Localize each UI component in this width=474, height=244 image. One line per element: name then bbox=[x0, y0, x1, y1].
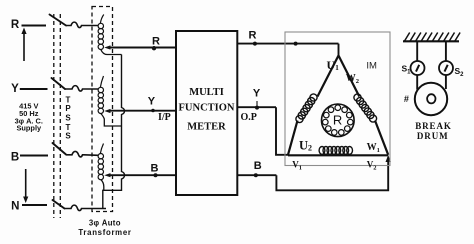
stator winding V (bottom side of delta) bbox=[288, 147, 388, 156]
TPSTS switch dashed enclosure bbox=[54, 14, 61, 218]
meter label bbox=[178, 87, 234, 133]
rope to spring balance S2 bbox=[445, 41, 447, 61]
svg-text:B: B bbox=[11, 152, 19, 164]
fuse B bbox=[66, 151, 98, 156]
svg-text:METER: METER bbox=[187, 122, 226, 133]
winding interconnect vertical bbox=[103, 55, 125, 209]
ceiling support with hatching bbox=[403, 33, 460, 42]
svg-text:#: # bbox=[404, 94, 409, 104]
svg-text:BREAK: BREAK bbox=[415, 121, 452, 131]
tap arrow Y and wire to meter bbox=[104, 109, 176, 113]
wire Y meter output bbox=[237, 101, 288, 155]
svg-text:DRUM: DRUM bbox=[417, 131, 449, 141]
rope S2 to drum bbox=[445, 75, 447, 89]
rotor bbox=[322, 104, 355, 137]
svg-text:Supply: Supply bbox=[16, 124, 42, 133]
stator winding W (right side of delta) bbox=[339, 56, 389, 155]
transformer winding Y (coil) bbox=[98, 76, 121, 126]
wire B supply bbox=[20, 155, 48, 157]
wire N supply bbox=[22, 204, 47, 206]
svg-text:B: B bbox=[254, 160, 262, 172]
svg-text:S: S bbox=[65, 132, 71, 141]
spring balance S2 bbox=[439, 61, 453, 75]
svg-text:R: R bbox=[333, 113, 342, 128]
transformer winding R (coil) bbox=[98, 15, 121, 55]
switch blade N bbox=[53, 200, 65, 209]
svg-text:S: S bbox=[65, 114, 71, 123]
drum shaft hole bbox=[427, 94, 435, 103]
wire R meter output bbox=[237, 42, 338, 57]
supply rating label 415V 50Hz bbox=[15, 101, 43, 132]
svg-text:R: R bbox=[249, 29, 257, 41]
label BREAK DRUM bbox=[415, 121, 452, 141]
transformer winding B (coil) bbox=[98, 144, 104, 191]
svg-text:O.P: O.P bbox=[241, 112, 257, 123]
auto transformer dashed box bbox=[92, 7, 113, 212]
fuse R bbox=[66, 22, 98, 27]
svg-text:IM: IM bbox=[366, 60, 377, 71]
switch blade Y bbox=[52, 78, 66, 89]
rope to spring balance S1 bbox=[416, 41, 418, 61]
svg-text:MULTI: MULTI bbox=[189, 87, 224, 98]
svg-text:B: B bbox=[151, 162, 159, 174]
svg-text:N: N bbox=[11, 201, 19, 213]
multi function meter box bbox=[176, 31, 237, 195]
svg-text:R: R bbox=[152, 36, 160, 48]
svg-text:Y: Y bbox=[11, 83, 19, 95]
svg-text:Y: Y bbox=[253, 88, 261, 100]
svg-text:Y: Y bbox=[148, 95, 156, 107]
label TPSTS bbox=[65, 96, 71, 141]
wire R supply bbox=[22, 25, 47, 27]
brake drum circle bbox=[415, 83, 447, 115]
phase arrow above N bbox=[23, 169, 28, 203]
svg-text:Transformer: Transformer bbox=[78, 228, 131, 237]
transformer label bbox=[78, 219, 131, 237]
wire Y supply bbox=[20, 88, 48, 90]
switch blade B bbox=[53, 143, 67, 155]
tap arrow R and wire to meter bbox=[104, 45, 176, 50]
svg-text:I/P: I/P bbox=[158, 112, 171, 123]
switch blade R bbox=[50, 15, 67, 26]
wire B meter output bbox=[237, 155, 391, 190]
rope S1 to drum bbox=[416, 75, 418, 90]
spring balance S1 bbox=[411, 61, 425, 75]
fuse Y bbox=[65, 86, 98, 91]
svg-text:FUNCTION: FUNCTION bbox=[178, 103, 234, 114]
svg-text:P: P bbox=[65, 104, 71, 113]
tap arrow B and wire to meter bbox=[104, 173, 176, 177]
fuse N bbox=[65, 205, 107, 210]
stator winding U (left side of delta) bbox=[288, 56, 339, 155]
phase arrow below R bbox=[21, 28, 26, 62]
svg-text:3φ Auto: 3φ Auto bbox=[89, 219, 121, 228]
svg-text:R: R bbox=[11, 19, 20, 31]
induction motor enclosure box bbox=[285, 32, 390, 166]
